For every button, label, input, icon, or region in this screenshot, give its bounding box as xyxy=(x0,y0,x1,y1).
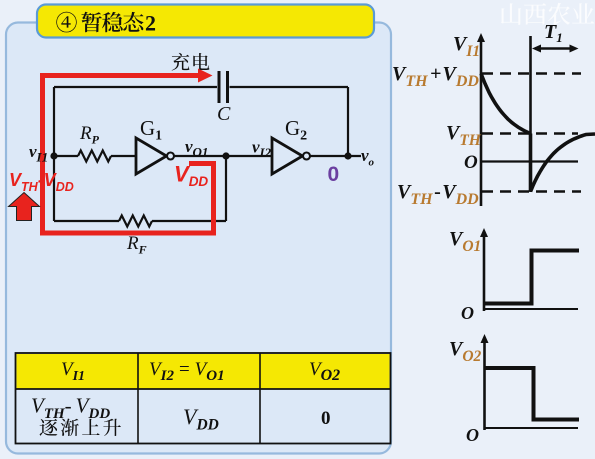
svg-text:VO2: VO2 xyxy=(449,338,482,365)
svg-text:0: 0 xyxy=(321,408,331,429)
svg-text:VI1: VI1 xyxy=(453,33,480,60)
svg-text:O: O xyxy=(461,303,474,323)
svg-text:2: 2 xyxy=(145,11,156,36)
svg-text:0: 0 xyxy=(328,163,340,186)
svg-text:VTH-VDD: VTH-VDD xyxy=(397,181,479,208)
svg-text:VO1: VO1 xyxy=(449,228,481,255)
svg-text:O: O xyxy=(464,152,478,173)
svg-text:C: C xyxy=(217,103,231,125)
svg-text:T1: T1 xyxy=(544,21,563,45)
svg-text:VTH: VTH xyxy=(446,122,482,149)
svg-text:VTH+VDD: VTH+VDD xyxy=(392,63,479,90)
svg-text:O: O xyxy=(466,425,479,445)
